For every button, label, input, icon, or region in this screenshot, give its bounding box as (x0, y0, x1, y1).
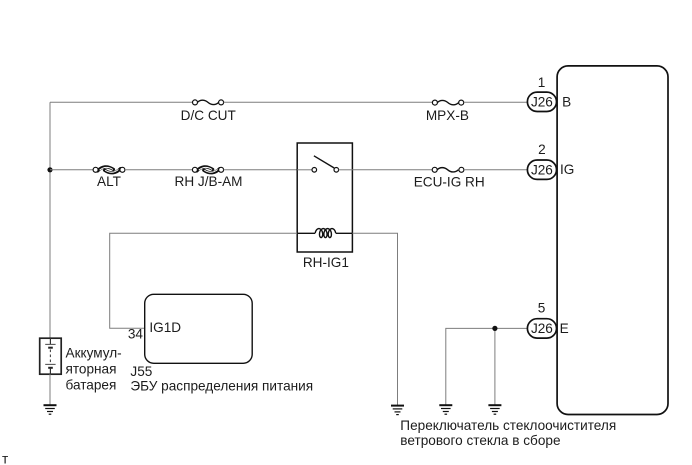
wire: ground branch to connector J26 pin 5 (446, 328, 528, 404)
relay switch contacts (312, 168, 317, 173)
fuse MPX-B (432, 100, 463, 105)
node: junction of bus and IG row (47, 167, 52, 172)
svg-text:MPX-B: MPX-B (426, 108, 469, 123)
relay switch blade (314, 156, 334, 168)
fuse D/C CUT (193, 100, 224, 105)
wire: battery feed to D/C CUT (top row left) (50, 101, 193, 103)
relay coil L (297, 229, 352, 238)
svg-text:ALT: ALT (97, 174, 121, 189)
svg-text:34: 34 (128, 327, 144, 342)
svg-text:Аккумул-: Аккумул- (66, 345, 122, 360)
svg-text:J26: J26 (531, 94, 553, 109)
wire: junction drop to ground (494, 328, 496, 404)
wire: junction to ALT fusible link (50, 169, 93, 171)
battery (40, 338, 62, 374)
wire: MPX-B to connector J26 pin 1 (464, 101, 528, 103)
fusible link ALT (93, 167, 125, 173)
svg-text:ветрового стекла в сборе: ветрового стекла в сборе (400, 433, 560, 448)
svg-text:батарея: батарея (66, 377, 117, 392)
svg-text:J55: J55 (130, 364, 152, 379)
node: junction on E wire (492, 326, 497, 331)
connector J26 pin 5 (527, 319, 556, 338)
svg-text:IG: IG (560, 162, 574, 177)
wire: ECU-IG RH to connector J26 pin 2 (464, 169, 528, 171)
svg-text:ECU-IG RH: ECU-IG RH (414, 175, 485, 190)
ground: E branch left (439, 405, 452, 414)
wire: main vertical bus from top row to battery (49, 102, 51, 338)
fusible link RH J/B-AM (192, 167, 223, 173)
svg-text:J26: J26 (531, 321, 553, 336)
svg-text:RH-IG1: RH-IG1 (303, 255, 349, 270)
ECU box J55 (IG1D) (145, 294, 253, 363)
svg-text:RH J/B-AM: RH J/B-AM (175, 174, 243, 189)
svg-text:1: 1 (538, 75, 546, 90)
svg-text:IG1D: IG1D (149, 320, 181, 335)
svg-text:2: 2 (538, 142, 546, 157)
connector J26 pin 1 (527, 92, 556, 111)
wire: D/C CUT to MPX-B (224, 101, 433, 103)
svg-text:5: 5 (538, 301, 546, 316)
svg-text:яторная: яторная (66, 361, 117, 376)
fuse ECU-IG RH (432, 167, 464, 172)
wire: relay coil wire left (to pin 34 of J55) (110, 233, 298, 328)
wire: relay coil to ground drop (352, 233, 397, 405)
wire: relay to ECU-IG RH fuse (352, 169, 432, 171)
svg-text:D/C CUT: D/C CUT (181, 108, 236, 123)
svg-text:Переключатель стеклоочистителя: Переключатель стеклоочистителя (400, 418, 616, 433)
ground: relay coil (391, 406, 404, 415)
connector J26 pin 2 (527, 160, 556, 179)
ground: E branch right (488, 405, 501, 414)
wire: RH J/B-AM to relay RH-IG1 (224, 169, 297, 171)
wire: battery to ground (49, 374, 51, 405)
wire: relay internal, left edge to switch contact (297, 169, 312, 171)
wire: ALT to RH J/B-AM (125, 169, 192, 171)
svg-text:B: B (562, 94, 571, 109)
ground: battery (44, 405, 57, 414)
svg-text:ЭБУ распределения питания: ЭБУ распределения питания (130, 379, 313, 394)
svg-text:J26: J26 (531, 162, 553, 177)
svg-text:т: т (2, 451, 8, 465)
wire: relay internal, switch to right edge (339, 169, 353, 171)
relay RH-IG1 box (297, 143, 352, 252)
svg-text:E: E (560, 321, 569, 336)
wiper switch assembly box (557, 66, 668, 415)
